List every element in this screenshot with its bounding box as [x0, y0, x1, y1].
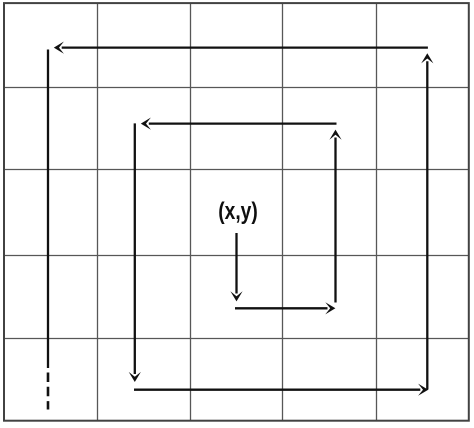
wire: inner left arrow — [141, 118, 337, 130]
wire: down arrow from (x,y) — [230, 233, 242, 301]
wire: inner up arrow — [329, 130, 341, 303]
svg-text:(x,y): (x,y) — [218, 198, 258, 225]
wire: right side up arrow — [421, 53, 433, 389]
wire: left side dashed continuation — [47, 373, 50, 410]
wire: inner right arrow — [235, 302, 335, 314]
grid interior vertical lines — [98, 3, 377, 421]
wire: top left arrow — [54, 42, 428, 54]
grid interior horizontal lines — [4, 88, 469, 339]
wire: bottom right arrow — [134, 384, 428, 396]
wire: long down arrow on mid-left — [129, 123, 141, 382]
wire: left side down line (solid part) — [47, 50, 49, 369]
